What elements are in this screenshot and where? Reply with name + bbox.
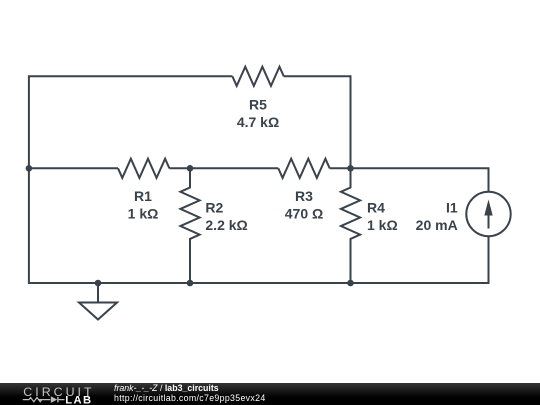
resistor R1	[118, 159, 169, 178]
svg-text:20 mA: 20 mA	[416, 217, 458, 233]
current source I1 arrow	[488, 208, 490, 229]
svg-text:R1: R1	[134, 188, 152, 204]
svg-text:LAB: LAB	[65, 395, 92, 405]
ground	[79, 283, 117, 320]
node R2 bottom dot	[187, 280, 194, 287]
node left-middle dot	[26, 165, 33, 172]
wire left vertical lower	[29, 168, 98, 283]
resistor R2	[180, 168, 199, 283]
wire bottom	[98, 282, 351, 284]
wire R3 to node B	[330, 167, 351, 169]
footer bar	[0, 383, 540, 405]
resistor R4	[341, 168, 360, 283]
wire top horizontal left segment	[29, 76, 233, 168]
svg-text:470 Ω: 470 Ω	[285, 206, 323, 222]
node B dot	[347, 165, 354, 172]
footer text	[114, 383, 266, 405]
node ground dot	[95, 280, 102, 287]
wire I1 bottom	[351, 236, 489, 283]
wire middle left	[29, 167, 118, 169]
node A dot	[187, 165, 194, 172]
svg-text:R4: R4	[367, 199, 385, 215]
svg-text:R2: R2	[205, 199, 223, 215]
svg-text:R3: R3	[295, 188, 313, 204]
svg-text:I1: I1	[446, 199, 458, 215]
wire R1 to node A	[169, 167, 190, 169]
svg-text:1 kΩ: 1 kΩ	[367, 217, 398, 233]
wire top horizontal right segment	[284, 76, 351, 168]
wire node A to R3	[190, 167, 278, 169]
resistor R3	[278, 159, 329, 178]
wire middle right	[351, 168, 489, 192]
svg-text:2.2 kΩ: 2.2 kΩ	[205, 217, 247, 233]
svg-text:1 kΩ: 1 kΩ	[128, 206, 159, 222]
CircuitLab logo	[0, 380, 110, 405]
resistor R5	[232, 67, 283, 86]
svg-text:R5: R5	[249, 96, 267, 112]
svg-text:4.7 kΩ: 4.7 kΩ	[237, 114, 279, 130]
node R4 bottom dot	[347, 280, 354, 287]
current source I1 circle	[466, 192, 510, 236]
